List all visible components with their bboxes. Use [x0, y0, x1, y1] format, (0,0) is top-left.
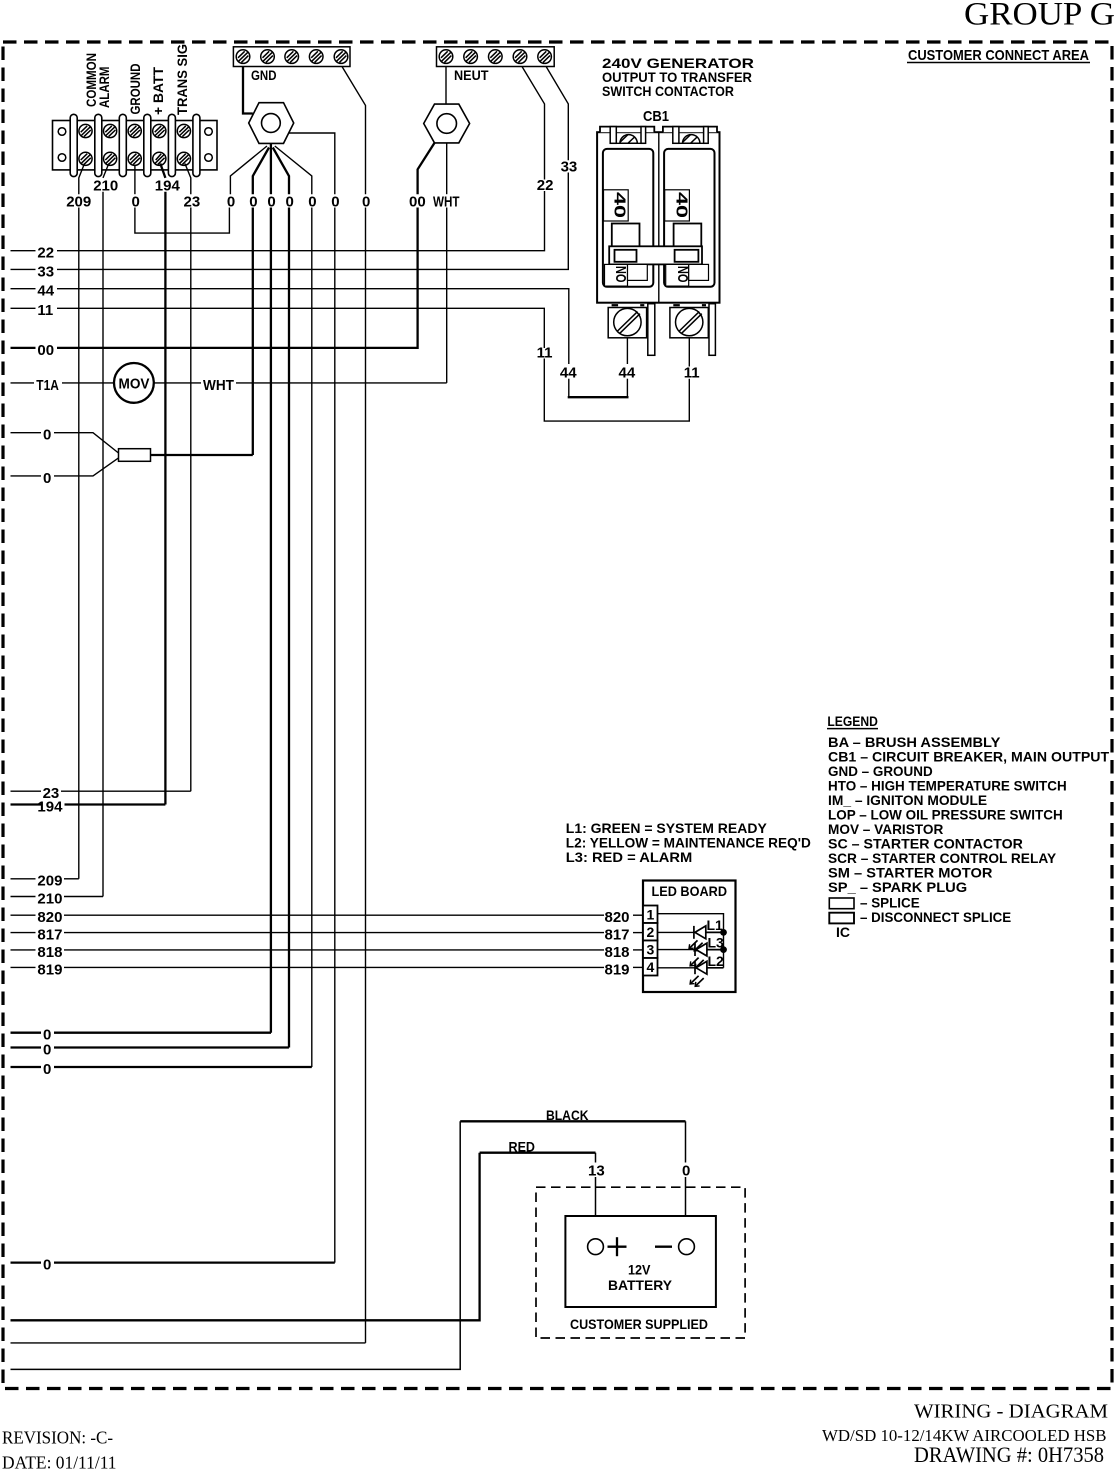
- svg-text:817: 817: [605, 927, 630, 944]
- TB1 barriers: [70, 114, 200, 176]
- svg-text:209: 209: [66, 193, 91, 210]
- ground lug hex (NEUT): [424, 104, 470, 143]
- circuit breaker CB1: [597, 108, 719, 355]
- ground lug hex (GND): [249, 103, 294, 144]
- wire GND screw1 to lug: [243, 67, 253, 114]
- svg-text:0: 0: [132, 193, 140, 210]
- svg-text:IC: IC: [836, 924, 850, 940]
- wire 0 (left exit to ground fan #3): [11, 1032, 272, 1034]
- wire splice output to ground fan #2: [151, 454, 253, 456]
- CB1 left pole screw posts: [610, 127, 616, 144]
- LED L2: [695, 961, 724, 974]
- wire 817 (left exit to LED board pin 2): [11, 932, 644, 934]
- wire 209 (TB1 screw1 to left exit): [11, 164, 85, 879]
- svg-text:CB1: CB1: [643, 108, 669, 125]
- wire NEUT screw1 to lug: [445, 67, 447, 105]
- CB1 right pole lower leg: [709, 304, 715, 356]
- TB1 labels COMMON ALARM GROUND +BATT TRANS SIG: [83, 44, 190, 115]
- CB1 right pole rating window: [665, 190, 690, 221]
- svg-text:0: 0: [227, 193, 235, 210]
- svg-text:819: 819: [605, 961, 630, 978]
- svg-text:11: 11: [537, 345, 553, 362]
- svg-text:WIRING - DIAGRAM: WIRING - DIAGRAM: [914, 1401, 1108, 1423]
- svg-text:SP_ – SPARK PLUG: SP_ – SPARK PLUG: [828, 879, 967, 895]
- LED board box: [643, 881, 736, 993]
- svg-text:44: 44: [619, 364, 636, 381]
- CB1 handle tie bar: [609, 246, 702, 264]
- CB1 left pole lug screw: [614, 308, 641, 335]
- svg-text:L1: L1: [707, 917, 724, 933]
- svg-text:23: 23: [43, 785, 60, 802]
- svg-text:DATE: 01/11/11: DATE: 01/11/11: [2, 1453, 117, 1471]
- svg-text:GROUP G: GROUP G: [964, 0, 1115, 33]
- wire 0 (lower splice input): [11, 458, 119, 476]
- svg-text:818: 818: [605, 944, 630, 961]
- svg-text:GND: GND: [251, 67, 277, 83]
- svg-text:819: 819: [37, 961, 62, 978]
- svg-text:11: 11: [684, 364, 700, 381]
- svg-text:ON: ON: [613, 266, 630, 283]
- wire 44 (left exit to CB1 left screw): [11, 289, 628, 398]
- battery dashed enclosure CUSTOMER SUPPLIED: [536, 1187, 745, 1338]
- wire 210 (TB1 screw2 to left exit): [11, 164, 109, 897]
- CB1 left pole rating window: [604, 190, 629, 221]
- CB1 center divider: [658, 132, 660, 303]
- wire 0 (TB1 GROUND screw3, U-link to ground fan): [135, 165, 230, 233]
- CB1 right pole ON window: [666, 264, 689, 286]
- svg-text:12V: 12V: [628, 1262, 651, 1278]
- svg-text:209: 209: [37, 873, 62, 890]
- wire pin1 to common rail: [658, 914, 724, 933]
- svg-text:1: 1: [647, 907, 655, 923]
- wire WHT (NEUT lug to T1A wire): [446, 143, 448, 383]
- ground bus bar GND: [233, 47, 350, 67]
- wire pin3 to LED L3: [658, 949, 695, 951]
- svg-text:0: 0: [249, 193, 257, 210]
- CB1 left pole contact pad: [612, 224, 640, 248]
- LED board pin 4: [643, 958, 658, 976]
- battery B1 12V: [565, 1216, 716, 1307]
- svg-text:23: 23: [184, 193, 201, 210]
- LED board pin 1: [643, 906, 658, 924]
- wire BLACK to battery minus: [460, 1120, 685, 1122]
- svg-text:44: 44: [560, 364, 577, 381]
- svg-text:44: 44: [37, 283, 54, 300]
- LED L1: [694, 926, 724, 939]
- svg-text:2: 2: [647, 924, 655, 940]
- CB1 right handle: [675, 250, 699, 262]
- svg-text:CUSTOMER CONNECT AREA: CUSTOMER CONNECT AREA: [908, 48, 1089, 64]
- svg-text:33: 33: [561, 159, 578, 176]
- svg-text:+ BATT: + BATT: [150, 67, 166, 115]
- battery minus terminal: [655, 1246, 672, 1248]
- wire 11 (left exit to CB1 right screw): [11, 308, 690, 421]
- CB1 right pole top tab: [663, 127, 717, 133]
- svg-text:0: 0: [43, 1041, 51, 1058]
- LED color note: [566, 820, 811, 865]
- TB1 screws (hatched): [79, 124, 191, 165]
- svg-text:WHT: WHT: [203, 377, 234, 394]
- CB1 left pole lower leg: [648, 304, 655, 356]
- LED board pin 3: [643, 941, 658, 959]
- wire red battery feed (left exit): [11, 1153, 480, 1321]
- wire 194 (TB1 screw4 to left exit): [11, 164, 166, 805]
- wire 23 (TB1 screw5 to left exit): [11, 164, 191, 792]
- svg-text:820: 820: [605, 909, 630, 926]
- svg-text:REVISION: -C-: REVISION: -C-: [2, 1428, 113, 1448]
- wire 818 (left exit to LED board pin 3): [11, 949, 644, 951]
- wire pin2 to LED L1: [658, 931, 694, 933]
- wire 33 (NEUT screw5 to left exit): [11, 67, 569, 270]
- CB1 right pole inner case: [664, 149, 714, 287]
- svg-text:TRANS SIG: TRANS SIG: [174, 44, 190, 115]
- svg-text:210: 210: [93, 177, 118, 194]
- svg-text:0: 0: [308, 193, 316, 210]
- svg-text:GROUND: GROUND: [127, 64, 143, 115]
- label CUSTOMER CONNECT AREA: [907, 48, 1090, 64]
- ground fan wire 0 #6 (from lug side): [289, 133, 335, 1263]
- junction dot: [720, 946, 727, 953]
- svg-text:40: 40: [611, 192, 628, 218]
- CB1 right pole screw posts: [673, 127, 679, 144]
- svg-text:818: 818: [37, 944, 62, 961]
- svg-text:NEUT: NEUT: [454, 67, 489, 83]
- CB1 left pole ON window: [605, 264, 628, 286]
- note 240V GENERATOR OUTPUT TO TRANSFER SWITCH CONTACTOR: [602, 55, 754, 99]
- LED L3: [695, 943, 724, 956]
- svg-text:3: 3: [647, 942, 655, 958]
- ground fan wire 0 #2 (to splice): [253, 148, 269, 456]
- svg-text:0: 0: [43, 1257, 51, 1274]
- wire 22 (NEUT screw4 to left exit): [11, 67, 545, 251]
- svg-text:0: 0: [267, 193, 275, 210]
- svg-text:22: 22: [537, 177, 554, 194]
- ground fan wire 0 #5: [275, 146, 312, 1067]
- wire pin4 to LED L2: [658, 967, 695, 969]
- LED board: [643, 881, 736, 993]
- svg-text:0: 0: [43, 427, 51, 444]
- svg-text:ON: ON: [675, 266, 692, 283]
- svg-text:210: 210: [37, 890, 62, 907]
- ground fan wire 0 #7 (from GND screw5): [342, 67, 366, 1343]
- svg-text:BLACK: BLACK: [546, 1107, 589, 1123]
- CB1 body: [597, 132, 719, 303]
- svg-text:0: 0: [286, 193, 294, 210]
- wire black battery feed (left exit): [11, 1121, 461, 1369]
- svg-text:T1A: T1A: [36, 377, 59, 394]
- CB1 left pole top tab: [600, 127, 654, 133]
- svg-text:33: 33: [37, 263, 54, 280]
- varistor MOV: [114, 363, 154, 403]
- wire 0 (left exit to ground fan #4): [11, 1046, 289, 1048]
- svg-text:0: 0: [331, 193, 339, 210]
- splice SP1: [119, 449, 151, 462]
- svg-text:4: 4: [647, 959, 655, 975]
- neutral bus bar NEUT: [437, 47, 555, 67]
- battery plus terminal: [588, 1239, 604, 1255]
- svg-text:0: 0: [43, 1061, 51, 1078]
- svg-text:40: 40: [672, 192, 689, 218]
- wire 0 (upper splice input): [11, 433, 119, 453]
- legend disconnect splice symbol: [829, 913, 854, 924]
- terminal block TB1: [53, 121, 218, 170]
- ground fan wire 0 #3: [270, 143, 272, 1032]
- svg-text:BATTERY: BATTERY: [608, 1277, 673, 1293]
- wire RED to battery plus: [480, 1152, 596, 1154]
- svg-text:CUSTOMER SUPPLIED: CUSTOMER SUPPLIED: [570, 1316, 708, 1332]
- wire ground fan #7 exit (left): [11, 1342, 366, 1344]
- junction dot: [720, 929, 727, 936]
- LED board pin 2: [643, 923, 658, 941]
- svg-text:13: 13: [588, 1163, 605, 1180]
- wire T1A with varistor MOV: [11, 382, 447, 384]
- svg-text:194: 194: [155, 177, 181, 194]
- ground fan wire 0 #1: [230, 146, 267, 194]
- svg-text:11: 11: [37, 302, 53, 319]
- svg-text:0: 0: [362, 193, 370, 210]
- svg-text:– DISCONNECT SPLICE: – DISCONNECT SPLICE: [860, 909, 1011, 925]
- legend splice symbol: [829, 898, 854, 909]
- svg-text:L3: RED = ALARM: L3: RED = ALARM: [566, 849, 693, 865]
- wire 819 (left exit to LED board pin 4): [11, 966, 644, 968]
- wire 820 (left exit to LED board pin 1): [11, 914, 644, 916]
- svg-text:00: 00: [409, 193, 426, 210]
- svg-text:L2: L2: [708, 953, 725, 969]
- CB1 right pole contact pad: [674, 224, 702, 248]
- svg-text:RED: RED: [509, 1139, 536, 1155]
- CB1 right pole lug screw: [676, 308, 703, 335]
- common rail: [723, 932, 725, 967]
- wire 0 (left exit to ground fan #6): [11, 1261, 335, 1263]
- CB1 left handle: [615, 250, 637, 262]
- svg-text:820: 820: [37, 909, 62, 926]
- svg-text:LEGEND: LEGEND: [827, 713, 878, 729]
- ground fan wire 0 #4: [273, 148, 289, 1048]
- svg-text:817: 817: [37, 927, 62, 944]
- wire 0 (left exit to ground fan #5): [11, 1066, 312, 1068]
- svg-text:SWITCH CONTACTOR: SWITCH CONTACTOR: [602, 83, 734, 99]
- wire 00 (NEUT lug to left exit): [11, 143, 435, 348]
- svg-text:ALARM: ALARM: [96, 67, 112, 109]
- svg-text:MOV: MOV: [119, 376, 150, 392]
- svg-text:LED BOARD: LED BOARD: [652, 883, 728, 899]
- svg-text:00: 00: [37, 342, 54, 359]
- svg-text:WHT: WHT: [433, 193, 460, 210]
- legend: [827, 713, 1110, 940]
- CB1 left pole inner case: [603, 149, 653, 287]
- svg-text:0: 0: [682, 1163, 690, 1180]
- svg-text:22: 22: [37, 245, 54, 262]
- CB1 left pole lug block: [608, 308, 646, 338]
- svg-text:0: 0: [43, 470, 51, 487]
- svg-text:DRAWING #: 0H7358: DRAWING #: 0H7358: [914, 1442, 1104, 1467]
- CB1 right pole lug block: [670, 308, 708, 338]
